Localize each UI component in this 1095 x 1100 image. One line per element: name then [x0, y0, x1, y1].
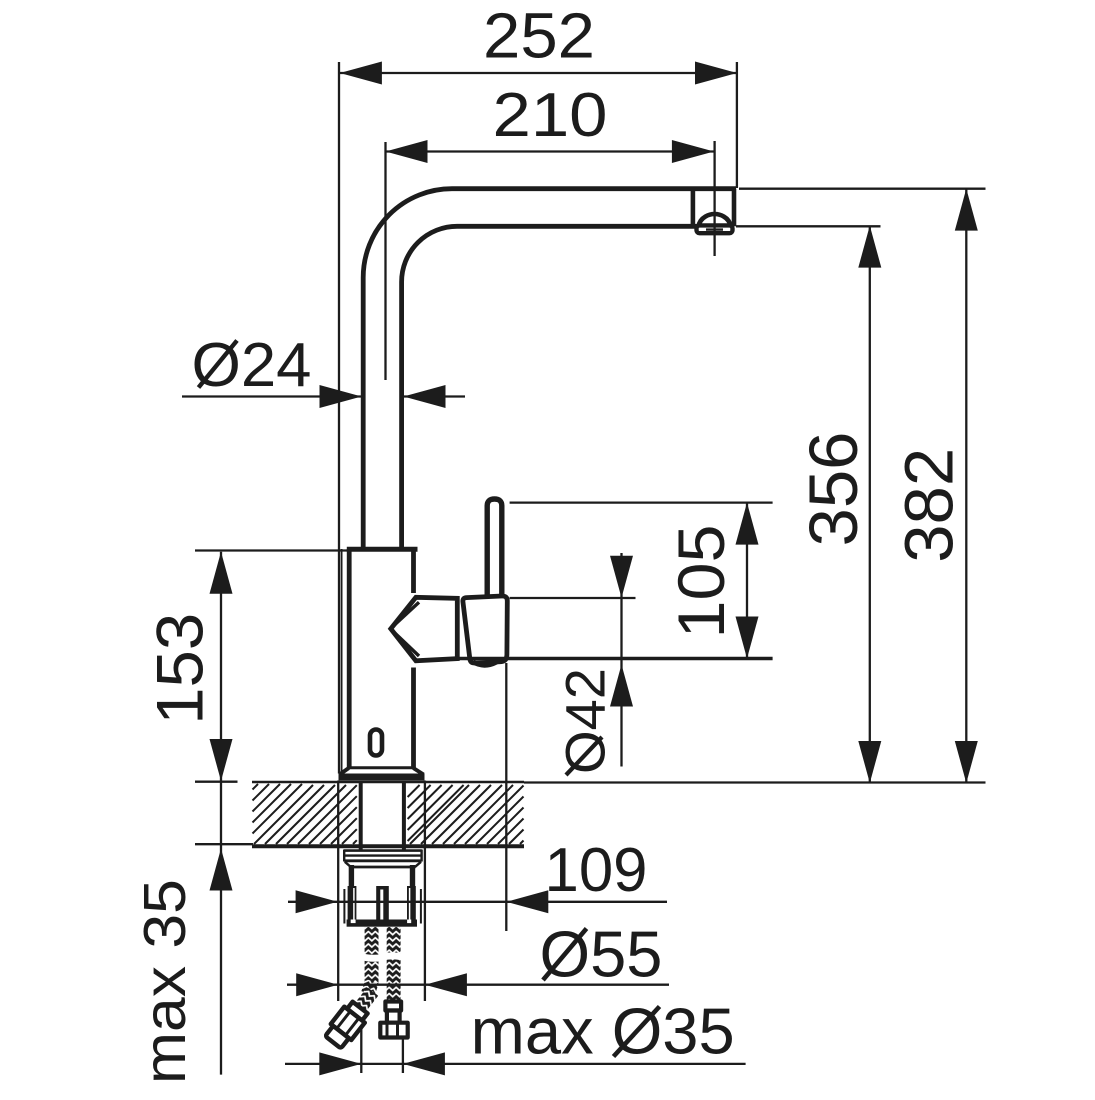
shank left edge	[359, 783, 363, 850]
dim 356 top extension line	[736, 225, 881, 227]
aerator dome	[698, 214, 731, 227]
dim 210 left extension line	[384, 142, 386, 380]
label O42 slash	[566, 737, 602, 775]
spout inner contour (riser right edge + inner bend + bottom line)	[402, 226, 734, 549]
label O55 slash	[543, 929, 587, 981]
label max O35 slash	[614, 1007, 660, 1057]
body right edge upper	[411, 549, 416, 593]
washer stack line 3	[344, 859, 421, 862]
dim 105 vertical line	[746, 503, 748, 659]
dim 382 vertical line	[965, 189, 967, 783]
arrow maxO35 left (pointing right)	[319, 1052, 361, 1075]
arrow O24 right (pointing left)	[404, 385, 446, 408]
countertop top right extension line	[524, 781, 986, 783]
left hose ferrule	[347, 1002, 368, 1021]
arrow 210 left	[386, 140, 428, 163]
svg-text:382: 382	[891, 448, 968, 563]
bracket wing line right	[420, 889, 422, 924]
dim maxO35 line	[285, 1063, 746, 1065]
lever rod outline	[487, 499, 502, 597]
arrow 105 top (up)	[736, 503, 759, 545]
body silhouette companion line	[341, 549, 343, 772]
left hose straight braided section	[365, 927, 379, 984]
washer chamfer left	[345, 862, 351, 867]
arrow 252 left	[340, 62, 382, 85]
base flare right diagonal	[413, 768, 423, 775]
washer chamfer right	[415, 862, 421, 867]
dim 109 line	[288, 901, 667, 903]
washer bottom line	[351, 866, 416, 869]
bracket center slot	[380, 890, 383, 927]
dim 105 top extension line	[510, 501, 773, 503]
washer right side	[420, 850, 422, 862]
left hose nut	[331, 1007, 365, 1040]
svg-text:O24: O24	[192, 331, 312, 400]
bracket left bar white line	[353, 888, 355, 922]
svg-text:210: 210	[493, 81, 608, 150]
body oval window	[370, 730, 382, 756]
bracket bottom bar notch left	[351, 920, 356, 924]
cup wall left	[349, 865, 354, 887]
arrow O55 left (pointing right)	[296, 973, 338, 996]
bracket left bar	[348, 886, 357, 927]
aerator base	[697, 225, 733, 233]
cup wall right	[410, 865, 415, 887]
arrow O24 left (pointing right)	[320, 385, 362, 408]
label O24 slash	[199, 341, 238, 388]
countertop top line	[252, 781, 524, 784]
left hose angled section and connector	[323, 983, 383, 1050]
dim O24 line right tail	[404, 395, 466, 397]
dim O55 left extension line	[337, 781, 339, 1002]
max35 bottom extension line	[195, 843, 253, 845]
dim 210 line	[386, 150, 714, 152]
base plate	[339, 774, 425, 781]
bracket right bar	[407, 886, 416, 927]
dim 356 vertical line	[869, 226, 871, 783]
dim 382 top extension line	[739, 188, 986, 190]
body left edge	[347, 549, 352, 768]
dim O42 vertical line	[620, 553, 622, 767]
spout tip left edge	[691, 189, 696, 227]
bracket right bar white line	[409, 888, 411, 922]
handle vertical reference line	[505, 663, 507, 931]
svg-text:153: 153	[143, 613, 217, 725]
washer left side	[343, 850, 345, 862]
arrow max35 (up, below countertop)	[210, 849, 233, 891]
handle hub	[463, 596, 507, 663]
arrow O42 top (down, outside above)	[610, 556, 633, 598]
right hose ferrule	[385, 1002, 401, 1011]
left hose end cap	[325, 1026, 349, 1049]
bracket wing line left	[343, 889, 345, 924]
valve boss highlight upper	[393, 602, 420, 627]
arrowheads	[210, 62, 978, 1076]
svg-text:O55: O55	[540, 917, 663, 990]
handle hub bottom shadow	[473, 662, 497, 665]
arrow 382 bottom (down)	[955, 741, 978, 783]
valve boss pentagon	[391, 597, 458, 661]
svg-text:105: 105	[664, 525, 738, 639]
dim 153 and max35 shared vertical line	[220, 552, 222, 1075]
dim 252 line	[340, 72, 737, 74]
right hose connector	[380, 1002, 407, 1038]
svg-text:356: 356	[795, 432, 872, 547]
svg-text:max O35: max O35	[471, 995, 735, 1068]
bracket bottom bar notch right	[407, 920, 411, 924]
base flare left diagonal	[340, 768, 349, 775]
countertop hatch left	[253, 784, 357, 844]
dim 252 left extension line	[338, 62, 340, 774]
dim O55 line	[287, 984, 669, 986]
dim 153 bottom tick	[195, 781, 238, 783]
arrow maxO35 right (pointing left)	[403, 1052, 445, 1075]
dim maxO35 right stub	[402, 1039, 404, 1073]
arrow 356 bottom (down)	[858, 741, 881, 783]
left hose bend braided section	[361, 979, 378, 996]
right hose straight braided section	[387, 927, 401, 1001]
spout outer contour (riser left edge + outer bend + top line)	[363, 189, 736, 549]
washer stack line 2	[344, 854, 422, 856]
aerator slot	[706, 228, 723, 230]
arrow 109 right (pointing left)	[506, 890, 548, 913]
washer stack line 1	[344, 849, 422, 852]
valve boss highlight lower	[393, 631, 420, 656]
dim 153 top extension line	[195, 549, 348, 551]
arrow 210 right	[672, 140, 714, 163]
countertop hatch right	[408, 785, 524, 844]
dim O42 top tick	[510, 597, 636, 599]
dim O24 line left tail	[182, 395, 362, 397]
body top line	[347, 547, 418, 552]
svg-text:252: 252	[483, 0, 595, 72]
arrow 382 top (up)	[955, 189, 978, 231]
spout tip right edge	[732, 189, 737, 227]
spout tip centerline	[713, 141, 715, 256]
right hose nut facet lines	[386, 1023, 389, 1038]
arrow 153 bottom (down)	[210, 739, 233, 781]
dim O55 right extension line	[424, 781, 426, 1002]
svg-text:O42: O42	[554, 668, 617, 774]
right hose neck	[387, 1011, 400, 1023]
bracket center bar	[376, 886, 389, 927]
arrow O55 right (pointing left)	[425, 973, 467, 996]
body right edge lower	[411, 668, 416, 769]
arrow 105 bottom (down)	[736, 617, 759, 659]
left hose nut facet lines	[337, 1011, 351, 1028]
arrow 153 top (up)	[210, 552, 233, 594]
svg-text:109: 109	[545, 836, 648, 905]
right hose nut	[380, 1023, 407, 1038]
arrow 356 top (up)	[858, 226, 881, 268]
arrow 252 right	[695, 62, 737, 85]
svg-text:max 35: max 35	[132, 879, 198, 1084]
shank right edge	[402, 783, 406, 850]
dim 252 right extension line	[736, 62, 738, 188]
arrow 109 left (pointing right)	[296, 890, 338, 913]
dim maxO35 left stub	[360, 1028, 362, 1073]
arrow O42 bottom (up, outside below)	[610, 665, 633, 707]
bracket bottom bar	[347, 920, 417, 927]
hose break wavy white band	[360, 952, 405, 961]
thick reference line under hub (105 bottom / O42 crossing)	[455, 657, 773, 660]
body bottom line	[349, 766, 414, 769]
countertop bottom line	[252, 844, 524, 848]
